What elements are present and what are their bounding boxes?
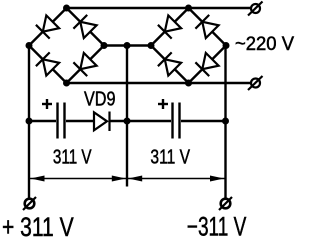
svg-text:311 V: 311 V	[53, 146, 92, 168]
svg-text:~220 V: ~220 V	[235, 34, 294, 55]
svg-text:−311 V: −311 V	[187, 212, 247, 242]
svg-text:VD9: VD9	[84, 89, 116, 111]
svg-text:311 V: 311 V	[150, 146, 190, 168]
svg-text:+ 311 V: + 311 V	[2, 212, 74, 242]
